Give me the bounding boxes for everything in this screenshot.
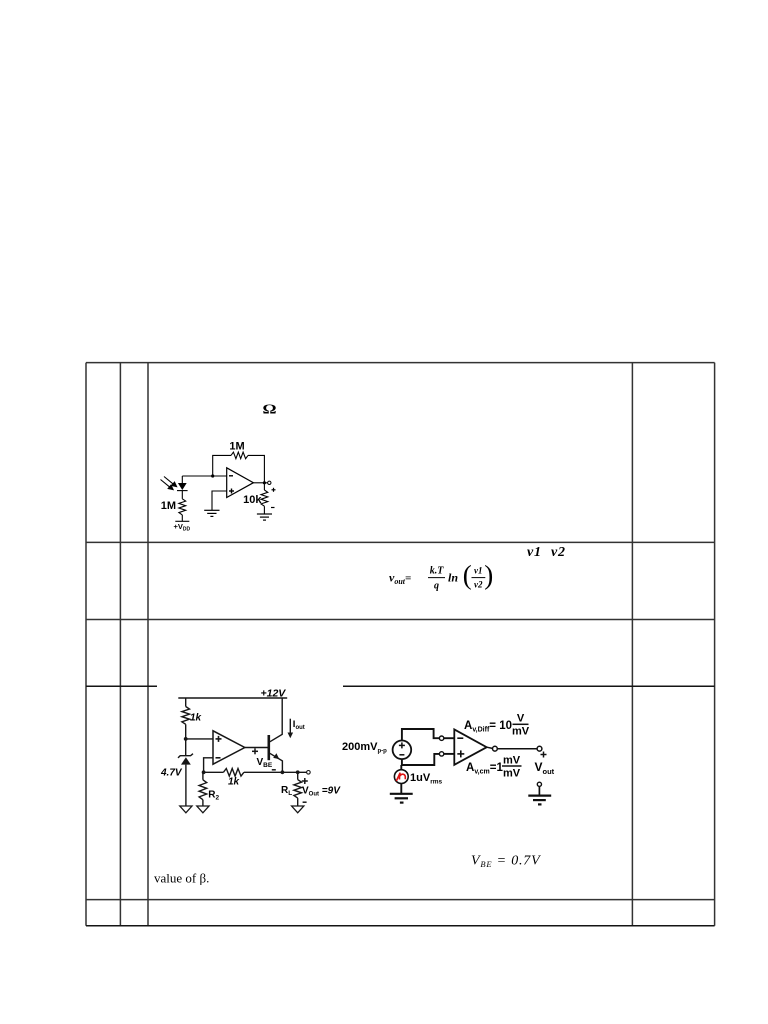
resistor RL: [294, 780, 302, 799]
wire output to 10k: [263, 483, 265, 490]
svg-text:v2: v2: [551, 545, 566, 560]
wire output: [253, 482, 267, 484]
noise source red symbol: [396, 773, 405, 781]
svg-text:1M: 1M: [229, 441, 244, 453]
output terminal circle (left circuit): [307, 771, 311, 775]
source V1 circle: [393, 741, 412, 760]
svg-text:q: q: [434, 581, 439, 592]
op-amp U2: [213, 731, 245, 764]
transistor emitter with arrow: [270, 753, 283, 772]
wire 1k to node: [185, 724, 187, 755]
resistor R2: [199, 780, 207, 800]
resistor 10k: [261, 490, 268, 506]
wire source bottom to amp plus: [402, 754, 454, 765]
node dot emitter: [281, 770, 285, 774]
+VDD rail: [175, 515, 189, 521]
svg-text:v1: v1: [527, 545, 542, 560]
svg-text:VBE = 0.7V: VBE = 0.7V: [471, 854, 541, 870]
ground (non-inverting): [204, 510, 219, 516]
svg-text:+VDD: +VDD: [174, 522, 191, 533]
svg-text:V: V: [517, 713, 525, 725]
svg-text:1k: 1k: [190, 713, 202, 724]
output terminal circle: [268, 481, 271, 484]
terminal circle minus input: [439, 736, 443, 740]
ground arrow (R2): [197, 806, 209, 813]
diff amp minus: [457, 737, 463, 739]
wire source top to amp minus: [402, 729, 454, 741]
svg-text:1M: 1M: [161, 500, 176, 512]
wire node to op-amp plus input: [186, 738, 213, 740]
output terminal circle (far): [537, 746, 542, 751]
op-amp minus sign (bottom): [216, 757, 221, 759]
svg-text:mV: mV: [503, 755, 521, 767]
svg-text:10k: 10k: [243, 494, 262, 506]
terminal circle plus input: [439, 752, 443, 756]
parentheses: [463, 560, 494, 590]
svg-text:Av,Diff= 10: Av,Diff= 10: [464, 720, 512, 734]
photodiode D1: [177, 476, 188, 499]
transistor Q1 base bar: [267, 735, 270, 760]
svg-text:Av,cm=1: Av,cm=1: [466, 762, 503, 776]
svg-text:Vout: Vout: [535, 760, 555, 776]
wire 10k to ground: [263, 506, 265, 514]
node dot plus-input: [184, 737, 188, 741]
wire feedback loop: [213, 455, 265, 482]
minus mark VBE: [272, 769, 276, 771]
resistor 1M bias: [179, 499, 186, 515]
svg-text:vout=: vout=: [389, 571, 411, 587]
svg-text:VBE: VBE: [257, 757, 273, 769]
light arrow 1: [164, 477, 177, 487]
bottom feedback wire: [204, 771, 307, 773]
svg-text:VOut =9V: VOut =9V: [302, 786, 341, 798]
ground (noise source): [390, 794, 413, 803]
wire inverting-node (circuit1): [182, 475, 226, 477]
svg-text:R2: R2: [208, 790, 219, 802]
minus mark load: [271, 507, 275, 509]
svg-text:4.7V: 4.7V: [160, 768, 183, 779]
svg-text:value of β.: value of β.: [154, 871, 209, 886]
right ground: [538, 786, 540, 795]
zener diode 4.7V: [178, 754, 193, 758]
fraction bars: [428, 577, 485, 579]
wire minus input feedback: [204, 758, 213, 773]
source minus: [399, 754, 404, 756]
resistor 1M feedback: [231, 452, 248, 459]
resistor 1k feedback: [223, 769, 244, 777]
Iout arrow: [289, 719, 291, 734]
ground (10k): [257, 514, 272, 520]
op-amp U1: [227, 468, 254, 498]
wire op-amp output to base: [245, 747, 268, 749]
svg-text:+12V: +12V: [261, 688, 287, 700]
plus mark Vout9: [302, 778, 308, 784]
plus mark Vout: [541, 752, 547, 758]
op-amp plus sign: [229, 489, 234, 494]
transistor collector: [270, 698, 282, 742]
ground arrow (zener): [180, 806, 192, 813]
output terminal circle (amp): [493, 746, 498, 751]
svg-text:mV: mV: [503, 768, 521, 780]
op-amp plus sign (top): [216, 736, 222, 742]
resistor 1k top: [182, 707, 190, 725]
svg-text:(: (: [463, 560, 472, 590]
svg-text:ln: ln: [448, 571, 458, 585]
op-amp minus sign: [229, 475, 233, 477]
noise source 1uVrms circle: [400, 765, 402, 770]
diff amp triangle: [454, 729, 486, 764]
+12V rail: [178, 697, 287, 699]
svg-text:1uVrms: 1uVrms: [410, 772, 442, 786]
right ground terminal circle: [537, 782, 541, 786]
table grid: [86, 363, 715, 926]
node dot feedback left: [202, 770, 206, 774]
svg-text:Iout: Iout: [293, 719, 305, 731]
svg-text:mV: mV: [512, 726, 530, 738]
wire output: [487, 747, 537, 749]
source plus: [399, 742, 405, 748]
node output dot: [263, 481, 266, 484]
node dot RL: [296, 770, 300, 774]
plus mark load: [272, 488, 276, 492]
formula vout = kT/q ln(v1/v2): [389, 566, 483, 592]
svg-text:k.T: k.T: [430, 566, 445, 577]
minus mark Vout9: [303, 801, 307, 803]
svg-text:RL: RL: [281, 785, 292, 797]
wire noise to ground: [400, 784, 402, 794]
svg-text:Ω: Ω: [262, 402, 276, 417]
svg-text:1k: 1k: [228, 777, 240, 788]
wire rail to 1k: [185, 698, 187, 707]
svg-text:v1: v1: [474, 566, 483, 576]
wire non-inverting to ground: [212, 491, 227, 510]
diff amp plus: [457, 750, 464, 757]
svg-text:v2: v2: [474, 580, 483, 590]
light arrow 2: [161, 480, 174, 490]
svg-text:): ): [484, 560, 493, 590]
plus mark VBE: [252, 748, 258, 754]
svg-text:200mVp-p: 200mVp-p: [342, 741, 387, 755]
node junction dot inverting input: [211, 474, 214, 477]
ground arrow (RL): [292, 806, 304, 813]
